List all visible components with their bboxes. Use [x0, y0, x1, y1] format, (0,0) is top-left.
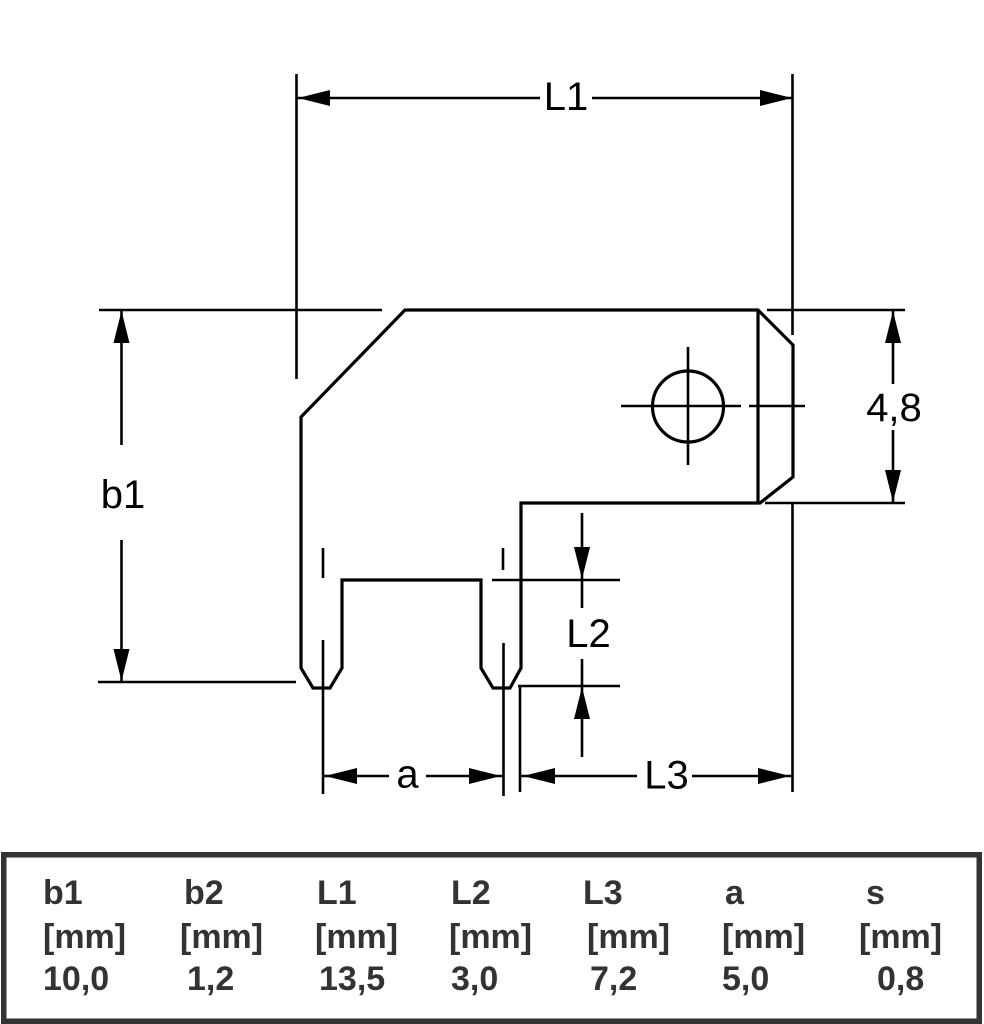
dimension b1 line bottom segment	[120, 540, 123, 681]
svg-text:L2: L2	[566, 612, 611, 656]
dimension L3 line left segment	[521, 775, 637, 778]
dimension L1 extension line left	[295, 74, 298, 379]
dimension L2 arrow top	[574, 547, 590, 579]
dimension L3 arrow right	[758, 768, 790, 784]
svg-text:b1: b1	[101, 473, 146, 517]
hole centerline vertical	[687, 347, 690, 465]
dimension 4,8 line bottom segment	[892, 430, 895, 502]
svg-text:[mm]: [mm]	[449, 918, 532, 956]
svg-text:s: s	[866, 874, 885, 912]
dimension a extension line right	[502, 643, 505, 796]
dimension b1 arrow bottom	[114, 649, 130, 681]
hole centerline horizontal right	[749, 405, 805, 408]
svg-text:3,0: 3,0	[451, 960, 498, 998]
dimension L1 extension line right	[791, 74, 794, 335]
svg-text:a: a	[725, 874, 745, 912]
dimension 4,8 arrow bottom	[885, 470, 901, 502]
dimension L3 arrow left	[523, 768, 555, 784]
dimension L2 line top segment	[581, 513, 584, 608]
dimension L1 line right segment	[592, 97, 793, 100]
dimension b1 extension line top	[99, 309, 382, 312]
svg-text:4,8: 4,8	[866, 386, 922, 430]
dimension L2 line bottom segment	[581, 659, 584, 757]
svg-text:L2: L2	[451, 874, 491, 912]
svg-text:[mm]: [mm]	[315, 918, 398, 956]
svg-text:7,2: 7,2	[590, 960, 637, 998]
svg-text:L3: L3	[583, 874, 623, 912]
dimension a arrow right	[469, 768, 501, 784]
dimension L2 extension line top	[492, 579, 620, 582]
svg-text:1,2: 1,2	[187, 960, 234, 998]
dimension 4,8 extension line bottom	[765, 502, 905, 505]
svg-text:0,8: 0,8	[877, 960, 924, 998]
fold line	[756, 310, 759, 503]
svg-text:a: a	[396, 753, 419, 797]
dimension 4,8 extension line top	[767, 309, 905, 312]
dimension b1 line top segment	[120, 311, 123, 445]
dimension a arrow left	[325, 768, 357, 784]
part outline	[301, 310, 793, 688]
dimension L2 arrow bottom	[574, 687, 590, 719]
dimension L1 arrow right	[760, 90, 792, 106]
dimension L3 extension line right	[791, 503, 794, 792]
right prong centerline tick	[502, 548, 505, 570]
svg-text:L1: L1	[544, 75, 589, 119]
dimension a extension line left	[322, 640, 325, 794]
hole	[653, 371, 724, 442]
dimension L1 arrow left	[298, 90, 330, 106]
table border	[4, 855, 980, 1022]
dimension L3 line right segment	[692, 775, 792, 778]
dimension 4,8 line top segment	[892, 311, 895, 384]
dimension L2 extension line bottom	[518, 685, 620, 688]
hole centerline horizontal left	[621, 405, 741, 408]
svg-text:13,5: 13,5	[319, 960, 385, 998]
svg-text:L1: L1	[317, 874, 357, 912]
dimension b1 arrow top	[114, 311, 130, 343]
svg-text:10,0: 10,0	[43, 960, 109, 998]
svg-text:5,0: 5,0	[722, 960, 769, 998]
svg-text:[mm]: [mm]	[587, 918, 670, 956]
dimension L1 line left segment	[297, 97, 540, 100]
dimension 4,8 arrow top	[885, 311, 901, 343]
left prong centerline tick	[322, 548, 325, 578]
svg-text:[mm]: [mm]	[180, 918, 263, 956]
svg-text:b1: b1	[43, 874, 83, 912]
dimension a line left segment	[323, 775, 389, 778]
svg-text:b2: b2	[184, 874, 224, 912]
dimension a line right segment	[426, 775, 503, 778]
svg-text:[mm]: [mm]	[43, 918, 126, 956]
dimension L3 extension line left	[519, 687, 522, 792]
svg-text:L3: L3	[644, 754, 689, 798]
dimension b1 extension line bottom	[98, 681, 296, 684]
svg-text:[mm]: [mm]	[722, 918, 805, 956]
svg-text:[mm]: [mm]	[859, 918, 942, 956]
